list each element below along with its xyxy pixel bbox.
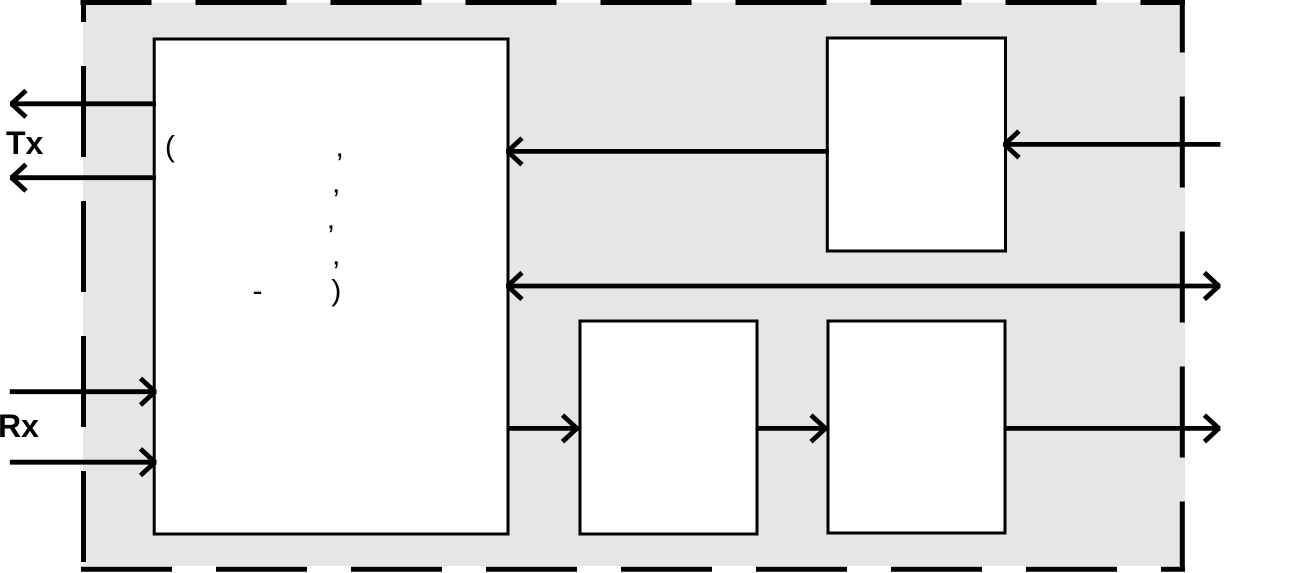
svg-text:,: , — [332, 239, 340, 272]
svg-text:(: ( — [165, 131, 175, 164]
svg-text:Tx: Tx — [6, 125, 44, 161]
svg-text:,: , — [336, 131, 344, 164]
svg-text:-: - — [253, 275, 263, 308]
svg-text:Rx: Rx — [0, 408, 39, 444]
svg-text:,: , — [327, 203, 335, 236]
svg-text:): ) — [331, 275, 341, 308]
svg-text:,: , — [332, 167, 340, 200]
